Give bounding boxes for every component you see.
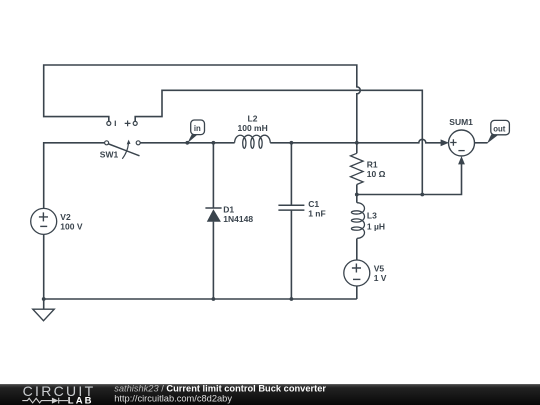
svg-text:100 mH: 100 mH — [238, 123, 268, 133]
wire: SUM1 output to out flag — [474, 142, 488, 144]
svg-text:sathishk23 / Current limit con: sathishk23 / Current limit control Buck … — [114, 383, 326, 393]
voltage source V2 — [31, 208, 57, 234]
wire: main rail SW1 to L2 — [140, 142, 235, 144]
wire: L3 bottom to V5 top — [356, 239, 358, 261]
wire: V2 negative lead down to ground node — [43, 234, 45, 299]
svg-text:out: out — [493, 124, 506, 133]
junction node C1/ground rail — [290, 297, 294, 301]
wire: ground stub — [43, 299, 45, 309]
svg-text:LAB: LAB — [68, 396, 94, 405]
summing block SUM1 input arrowhead (bottom) — [458, 156, 465, 164]
wire: V2 positive lead up to main rail and right to SW1 — [44, 143, 105, 209]
junction node R1-top/main rail — [355, 141, 359, 145]
wire: C1 branch from main rail down — [290, 143, 292, 206]
svg-text:L2: L2 — [248, 113, 258, 123]
junction node D1/main rail — [212, 141, 216, 145]
flag out — [487, 120, 509, 143]
wire: R1 top lead — [356, 143, 358, 154]
diode D1 — [205, 208, 221, 222]
resistor R1 — [351, 153, 364, 184]
switch SW1 — [105, 121, 141, 159]
wire: R1 bottom lead to node — [356, 185, 358, 195]
inductor L3 — [351, 203, 364, 239]
svg-text:in: in — [194, 124, 201, 133]
svg-text:R1: R1 — [367, 159, 378, 169]
flag in — [187, 120, 204, 143]
op-amp-like summer SUM1 — [449, 130, 475, 156]
svg-text:1 nF: 1 nF — [308, 209, 325, 219]
svg-text:SUM1: SUM1 — [449, 117, 473, 127]
CircuitLab logo schematic squiggle (resistor + diode) — [22, 398, 68, 404]
capacitor C1 — [278, 205, 304, 210]
junction node C1/main rail — [290, 141, 294, 145]
svg-text:1N4148: 1N4148 — [223, 214, 253, 224]
inductor L2 — [235, 135, 271, 148]
wire: L3 top lead — [356, 195, 358, 203]
wire: node R1-bottom rail right to SUM1 bottom input — [357, 164, 462, 195]
svg-text:100 V: 100 V — [60, 222, 83, 232]
svg-text:1 µH: 1 µH — [367, 221, 385, 231]
wire: sense wire B from SW1 + terminal up, across y=90, down to node R1-bottom — [135, 90, 422, 194]
junction node ground/V2 — [42, 297, 46, 301]
wire: D1 anode down to ground rail — [212, 222, 214, 299]
svg-text:SW1: SW1 — [100, 149, 119, 159]
svg-text:D1: D1 — [223, 205, 234, 215]
voltage source V5 — [344, 260, 370, 286]
svg-text:V2: V2 — [60, 212, 71, 222]
switch SW1 toggle arrowhead — [127, 140, 131, 145]
wire: sense wire A from SW1 terminal 1 up-left, across top, down to node R1-top (hops over wire B) — [44, 65, 361, 143]
junction node at in-flag on main rail — [185, 141, 189, 145]
ground symbol — [33, 309, 54, 321]
wire: V5 bottom to ground rail — [356, 286, 358, 299]
summing block SUM1 input arrowhead (left) — [441, 139, 449, 146]
svg-text:L3: L3 — [367, 210, 377, 220]
junction node D1/ground rail — [212, 297, 216, 301]
svg-text:10 Ω: 10 Ω — [367, 169, 386, 179]
junction node R1-bottom/L3 — [355, 193, 359, 197]
svg-text:1 V: 1 V — [374, 273, 387, 283]
junction node wireB/R1-bottom rail — [420, 193, 424, 197]
wire: C1 bottom to ground rail — [290, 210, 292, 299]
wire: bottom ground rail — [44, 298, 357, 300]
svg-text:http://circuitlab.com/c8d2aby: http://circuitlab.com/c8d2aby — [114, 393, 232, 403]
svg-text:V5: V5 — [374, 264, 385, 274]
wire: main rail L2 to SUM1 input (hops over wire B vertical) — [270, 139, 441, 142]
svg-text:C1: C1 — [308, 199, 319, 209]
wire: D1 branch from main rail down — [212, 143, 214, 208]
